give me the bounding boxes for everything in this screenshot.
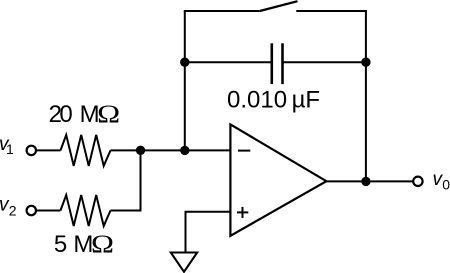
svg-text:5MΩ: 5MΩ bbox=[54, 231, 114, 258]
capacitor C1 plates bbox=[272, 43, 283, 84]
terminal v1 bbox=[27, 146, 36, 155]
wire v2 terminal to resistor R2 bbox=[36, 210, 60, 212]
terminal v2 bbox=[27, 206, 36, 215]
wire noninverting input to ground drop bbox=[186, 212, 231, 253]
svg-text:0.010µF: 0.010µF bbox=[227, 87, 320, 114]
svg-text:1: 1 bbox=[6, 141, 14, 157]
svg-text:2: 2 bbox=[9, 203, 17, 219]
node dot: summing junction at R2 join bbox=[136, 146, 145, 155]
ground symbol bbox=[171, 253, 197, 272]
resistor R1 zigzag bbox=[61, 135, 111, 166]
wire top branch left lead bbox=[184, 10, 260, 12]
wire capacitor left lead bbox=[185, 61, 272, 63]
node dot: capacitor right junction bbox=[361, 58, 370, 67]
wire op-amp output to v0 terminal bbox=[326, 180, 413, 182]
wire R2 to summing junction bbox=[111, 150, 141, 210]
op-amp U1 triangle bbox=[230, 124, 326, 235]
svg-text:0: 0 bbox=[442, 176, 450, 192]
wire left vertical (inverting node to top branch) bbox=[184, 11, 186, 150]
wire v1 terminal to resistor R1 bbox=[36, 149, 60, 151]
wire R1 to inverting input bbox=[111, 149, 231, 151]
resistor R2 zigzag bbox=[61, 195, 111, 226]
terminal v0 bbox=[413, 177, 422, 186]
wire right vertical (top branch to output node) bbox=[365, 11, 367, 181]
svg-text:20MΩ: 20MΩ bbox=[49, 101, 121, 128]
wire top branch right lead bbox=[296, 10, 367, 12]
op-amp minus pin label bbox=[238, 150, 250, 152]
op-amp plus pin label bbox=[237, 207, 248, 218]
node dot: inverting input node bbox=[180, 146, 189, 155]
switch S1 blade bbox=[260, 1, 298, 11]
node dot: capacitor left junction bbox=[180, 58, 189, 67]
node dot: output node bbox=[361, 177, 370, 186]
wire capacitor right lead bbox=[283, 61, 366, 63]
